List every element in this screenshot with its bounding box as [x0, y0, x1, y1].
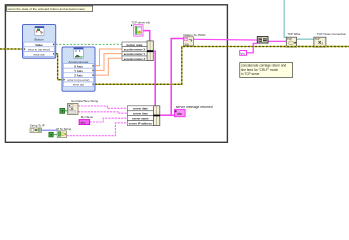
svg-text:abc: abc [81, 121, 86, 125]
svg-text:TCP Close Connection: TCP Close Connection [317, 32, 347, 36]
wire string Flatten output to Concatenate [194, 38, 258, 41]
wire cluster Bundle1 output down to Bundle2 input [153, 51, 155, 106]
node String To IP [30, 128, 42, 133]
express VI Accelerometer [62, 47, 95, 91]
svg-text:server IP address: server IP address [129, 122, 153, 126]
row error out [24, 52, 55, 57]
row X Axis [63, 64, 93, 69]
function Flatten To JSON [184, 33, 206, 47]
function Bundle By Name 2 [127, 106, 159, 126]
svg-text:Flatten To JSON: Flatten To JSON [184, 33, 206, 37]
wire string IP To String out to Bundle2 row4 [67, 123, 128, 136]
svg-text:Get Date/Time String: Get Date/Time String [71, 99, 98, 103]
constant boolean T (date) [60, 108, 65, 113]
row error in [24, 47, 55, 52]
svg-text:Button: Button [35, 37, 44, 41]
function TCP Write [286, 32, 301, 47]
svg-text:server time: server time [133, 112, 148, 116]
svg-text:error out: error out [34, 52, 45, 56]
svg-text:Value: Value [35, 43, 43, 47]
svg-text:return the state of the onboar: return the state of the onboard button a… [8, 7, 86, 11]
svg-text:accelerometer Z: accelerometer Z [124, 57, 146, 61]
svg-text:button state: button state [126, 43, 142, 47]
svg-text:{00}: {00} [185, 43, 189, 46]
wire cluster junction up to Flatten input [171, 39, 183, 116]
node IP To String [57, 131, 66, 138]
svg-text:server date: server date [133, 107, 148, 111]
wire TCP connection refnum between TCP Write and TCP Close [297, 38, 314, 40]
row error in [63, 77, 93, 82]
svg-text:accelerometer Y: accelerometer Y [124, 52, 146, 56]
wire boolean T const to IP To String [53, 134, 57, 136]
svg-text:server message returned: server message returned [176, 105, 213, 109]
constant boolean T (ip) [49, 132, 53, 137]
function Concatenate Strings [257, 37, 268, 43]
svg-text:T: T [50, 133, 52, 137]
svg-text:My Name: My Name [81, 115, 94, 119]
wire DBL X Axis [95, 49, 122, 66]
wire string Concatenate to TCP Write [268, 40, 286, 42]
svg-text:TCP: TCP [287, 38, 292, 41]
node Get Date/Time String [68, 99, 99, 114]
wire error Accelerometer.errorout long run to right edge [95, 47, 349, 85]
svg-text:T: T [61, 110, 63, 114]
wire DBL Z Axis [95, 58, 122, 75]
row Y Axis [63, 68, 93, 73]
svg-text:error out: error out [73, 83, 84, 87]
wire error Button.errorout to Accelerometer.errorin [56, 54, 62, 80]
row error out [63, 82, 93, 87]
svg-text:concatenate carriage return an: concatenate carriage return and [241, 63, 286, 67]
wire boolean Button.Value to Bundle1 row1 [56, 43, 122, 45]
svg-text:Z Axis: Z Axis [74, 74, 83, 78]
svg-text:Y Axis: Y Axis [74, 69, 83, 73]
constant string My Name [79, 120, 90, 125]
row Value [24, 42, 55, 47]
wire error left edge to Button error-in [0, 48, 23, 50]
svg-text:error in (no error): error in (no error) [67, 78, 89, 82]
svg-text:TCP server info: TCP server info [132, 20, 151, 24]
constant CRLF string [240, 51, 247, 56]
svg-text:TCP Write: TCP Write [287, 32, 301, 36]
svg-text:in TCP serve: in TCP serve [241, 72, 260, 76]
wire cluster TCP server info to Bundle1 input [144, 31, 150, 42]
function Bundle By Name 1 [122, 41, 153, 61]
svg-text:String To IP: String To IP [30, 123, 45, 127]
wire boolean T const to GetDate [65, 110, 68, 112]
svg-text:accelerometer X: accelerometer X [124, 47, 146, 51]
indicator string server message returned [174, 109, 185, 116]
svg-text:line feed for "CRLF" mode: line feed for "CRLF" mode [241, 68, 278, 72]
svg-text:abc: abc [177, 112, 183, 116]
express VI Button [23, 25, 56, 59]
wire string CRLF constant up to Concatenate [247, 43, 258, 53]
svg-text:error in (no error): error in (no error) [28, 48, 50, 52]
wire DBL Y Axis [95, 54, 122, 71]
svg-text:\r\n: \r\n [241, 52, 245, 56]
frame diagram border [5, 5, 227, 143]
svg-text:TCP: TCP [315, 38, 320, 41]
svg-text:IP To String: IP To String [56, 127, 71, 131]
wire error overdraw across TCP node bottoms [280, 46, 349, 48]
function TCP Close Connection [314, 32, 347, 47]
wire cluster Bundle2 output to indicator [160, 114, 175, 116]
wire string date out to Bundle2 row1 [78, 106, 127, 108]
control terminal TCP server info [131, 20, 151, 36]
row Z Axis [63, 73, 93, 78]
svg-text:server name: server name [132, 117, 149, 121]
wire string time out to Bundle2 row2 [78, 112, 127, 113]
svg-text:X Axis: X Axis [74, 64, 83, 68]
wire TCP connection refnum down and into TCP Write [284, 0, 286, 37]
comment label top [7, 6, 93, 11]
wire string My Name to Bundle2 row3 [90, 118, 128, 122]
wire net address String To IP to IP To String [42, 129, 58, 131]
comment label concatenate CRLF [240, 63, 293, 78]
